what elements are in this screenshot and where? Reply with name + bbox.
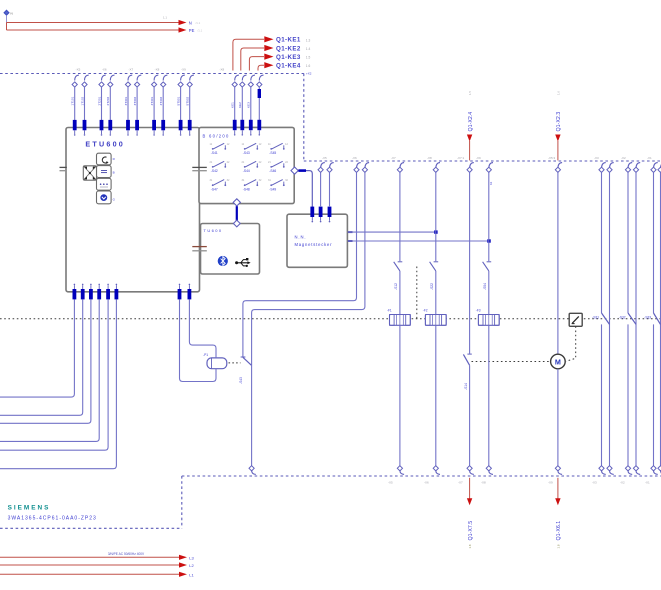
micro switch -S44: [242, 161, 262, 173]
micro switch -S47: [210, 179, 230, 191]
svg-text:Q1-KE4: Q1-KE4: [276, 63, 301, 70]
connector label bottom -X1: [645, 481, 650, 485]
mechanical link dashed to -S43: [229, 362, 241, 364]
wire ETU600 pin x108.1 to left edge: [0, 299, 108, 450]
label MLFB code: [8, 515, 97, 521]
svg-text:-S41: -S41: [211, 151, 218, 155]
cubicle boundary dashed step bottom vertical: [181, 476, 183, 528]
wire ETU600 pin x82.7 to left edge: [0, 299, 83, 415]
micro switch -S48: [242, 179, 262, 191]
wire Q1-KE3 with arrow: [249, 54, 310, 71]
wire Q1-KE4 with arrow: [258, 62, 310, 70]
svg-text:-S04: -S04: [483, 283, 487, 290]
terminal pin ETU600 bottom x179.5: [178, 284, 182, 300]
svg-text:-X2: -X2: [620, 481, 625, 485]
terminal ticks ETU600-TU600 link: [192, 247, 207, 251]
cubicle boundary dashed line step vertical: [303, 74, 305, 162]
terminal pin ETU600 top x110.3: [108, 120, 112, 136]
svg-text:1.1: 1.1: [163, 16, 167, 20]
secondary disconnect wire 3T302: [133, 75, 141, 120]
svg-text:5T501: 5T501: [176, 96, 180, 105]
wire coil F3 down: [488, 325, 490, 465]
connector label top -X5: [322, 156, 327, 160]
svg-text:-X8: -X8: [220, 68, 225, 72]
cubicle boundary dashed line bottom-left: [0, 527, 182, 529]
wire -S04 to coil F3: [488, 271, 490, 315]
terminal ticks ETU600 left edge: [60, 167, 67, 170]
terminal pin ETU600 bottom x108.1: [106, 284, 110, 300]
svg-text:Q1-X2.4: Q1-X2.4: [468, 112, 474, 132]
release box: [569, 313, 582, 326]
secondary disconnect wire motor feed: [467, 163, 474, 354]
svg-text:-X8: -X8: [481, 481, 486, 485]
connector label -X9: [181, 68, 186, 72]
svg-text:-X8: -X8: [427, 156, 432, 160]
wire ETU600 pin to -P1 top: [189, 299, 216, 358]
terminal pin ETU600 top x74.7: [73, 120, 77, 136]
usb symbol: [235, 258, 251, 267]
terminal pin ETU600 top x189.7: [188, 120, 192, 136]
secondary disconnect wire motor: [555, 163, 562, 355]
svg-text:Q1-KE2: Q1-KE2: [276, 45, 301, 52]
svg-text:-P1: -P1: [203, 353, 208, 357]
svg-text:-S42: -S42: [211, 169, 218, 173]
cubicle boundary dashed line bottom-right: [182, 475, 661, 477]
connector diamond B60/200 bottom: [233, 199, 240, 221]
secondary disconnect bottom x435.8: [433, 466, 440, 475]
wire from B60/200 to magnet pin 1: [311, 208, 313, 211]
svg-text:-S22: -S22: [430, 283, 434, 290]
arrow from Q1-X2.3: [555, 91, 562, 161]
svg-text:-S43: -S43: [243, 151, 250, 155]
switch -S12: [394, 262, 403, 271]
svg-text:-X2: -X2: [621, 156, 626, 160]
arrow N: [179, 20, 201, 26]
micro switch -S43: [242, 143, 262, 155]
magnet actuator N.N. box: [287, 214, 347, 267]
wire L3: [0, 555, 195, 561]
arrow from Q1-X2.4: [467, 91, 474, 161]
secondary disconnect wire 4T401: [150, 75, 158, 120]
svg-text:3T302: 3T302: [133, 96, 137, 105]
cubicle boundary dashed line top-left: [0, 73, 304, 75]
svg-text:1.5: 1.5: [306, 56, 311, 60]
secondary disconnect wire KE1: [231, 75, 239, 120]
mechanical linkage dashed line horizontal: [0, 318, 661, 320]
connector label top -X7:1: [457, 156, 465, 160]
micro switch -S45: [268, 143, 288, 155]
svg-text:-X1: -X1: [645, 481, 650, 485]
connector label bottom -X9: [548, 481, 553, 485]
wire ETU600 pin x116.4 to left edge: [0, 299, 116, 468]
terminal pin ETU600 top x128.0: [126, 120, 130, 136]
label -S43: [239, 377, 243, 384]
connector label -X7: [129, 68, 134, 72]
wire Q1-KE2 with arrow: [241, 45, 311, 71]
label feeder system: [108, 552, 145, 556]
svg-text:-X5: -X5: [76, 68, 81, 72]
svg-text:-X5:3: -X5:3: [548, 156, 556, 160]
svg-text:Q1-X2.3: Q1-X2.3: [556, 112, 562, 132]
secondary disconnect bottom x557.9: [555, 466, 562, 475]
svg-text:-S12: -S12: [394, 283, 398, 290]
svg-text:3WA1365-4CP61-0AA0-ZP23: 3WA1365-4CP61-0AA0-ZP23: [8, 515, 97, 521]
label -S12: [394, 283, 398, 290]
svg-text:N: N: [11, 12, 13, 16]
secondary disconnect wire 1T101: [71, 75, 79, 120]
micro switch -S49: [268, 179, 288, 191]
mechanical link dashed switch to motor: [472, 361, 550, 363]
svg-text:1T101: 1T101: [71, 96, 75, 105]
svg-text:-S47: -S47: [211, 187, 218, 191]
svg-text:1.8: 1.8: [468, 544, 472, 548]
secondary disconnect bottom x653.5: [651, 466, 658, 475]
secondary disconnect wire 5T502: [186, 75, 194, 120]
connector diamond TU600 top: [233, 220, 240, 227]
secondary disconnect wire pair inner: [252, 163, 370, 466]
coil -F3: [476, 309, 499, 326]
switch -S22: [430, 262, 439, 271]
svg-text:L2: L2: [189, 563, 194, 568]
svg-text:3T301: 3T301: [124, 96, 128, 105]
svg-text:-S45: -S45: [269, 151, 276, 155]
arrow to Q1-X7.5: [467, 478, 474, 549]
arrow to Q1-X6.1: [555, 478, 562, 549]
terminal pin B60/200 top x242.3: [240, 120, 244, 136]
connector label bottom -X8: [481, 481, 486, 485]
label -X8 connector gray: [220, 68, 225, 72]
test unit TU600 box: [201, 224, 260, 275]
terminal pin ETU600 bottom x90.9: [89, 284, 93, 300]
svg-text:2T201: 2T201: [97, 96, 101, 105]
secondary disconnect wire -S22: [433, 163, 440, 262]
limit switch pair -S32: [619, 163, 640, 466]
svg-text:-S48: -S48: [243, 187, 250, 191]
svg-text:SIEMENS: SIEMENS: [8, 505, 51, 512]
svg-text:5T502: 5T502: [186, 96, 190, 105]
wire ETU600 pin x74.4 to left edge: [0, 299, 74, 397]
wire ETU600 pin x99.2 to left edge: [0, 299, 99, 441]
svg-text:-X7: -X7: [129, 68, 134, 72]
secondary disconnect wire 4T402: [159, 75, 167, 120]
secondary disconnect bottom x609.5: [607, 466, 614, 475]
secondary disconnect wire 5T501: [176, 75, 184, 120]
svg-text:-X9: -X9: [476, 156, 481, 160]
svg-text:-S44: -S44: [243, 169, 250, 173]
svg-text:-X6: -X6: [102, 68, 107, 72]
wire L2: [0, 562, 195, 568]
connector label -X5: [76, 68, 81, 72]
svg-text:-S43: -S43: [239, 377, 243, 384]
svg-text:Q1-X6.1: Q1-X6.1: [556, 521, 562, 541]
connector label top -X9: [476, 156, 481, 160]
terminal pin B60/200 top x234.7: [233, 120, 237, 136]
terminal pin B60/200 top x259.3: [257, 120, 261, 136]
wire motor down: [557, 369, 559, 466]
terminal pin ETU600 top x154.1: [152, 120, 156, 136]
wire -S22 to coil F2: [435, 271, 437, 315]
label ETU600: [85, 139, 125, 148]
label B 60/200: [203, 134, 230, 139]
bluetooth symbol: [218, 256, 228, 266]
label -S22: [430, 283, 434, 290]
secondary disconnect bottom x660.5: [658, 466, 661, 475]
svg-text:Q1-X7.5: Q1-X7.5: [468, 521, 474, 541]
connector label top -X3: [594, 156, 599, 160]
secondary disconnect bottom x488.8: [486, 466, 493, 475]
terminal pin magnet box x329.5: [328, 207, 332, 223]
wire ETU600 pin x90.9 to left edge: [0, 299, 91, 423]
svg-text:KE1: KE1: [231, 102, 235, 108]
svg-text:-S14: -S14: [464, 383, 468, 390]
svg-text:-X6: -X6: [424, 481, 429, 485]
svg-text:/1.1: /1.1: [196, 21, 201, 25]
wire Q1-KE1 with arrow: [233, 36, 311, 70]
svg-text:1.8: 1.8: [556, 544, 560, 548]
label N.N.: [295, 234, 307, 239]
label -S14: [464, 383, 468, 390]
svg-text:1.4: 1.4: [306, 47, 311, 51]
svg-text:1.3: 1.3: [306, 38, 311, 42]
svg-text:L3: L3: [189, 555, 194, 560]
connector label -X6: [102, 68, 107, 72]
terminal pin ETU600 top x163.2: [161, 120, 165, 136]
secondary disconnect wire KE3: [247, 75, 255, 120]
mechanical linkage dashed vertical to coil F1: [416, 267, 418, 319]
svg-text:-S46: -S46: [269, 169, 276, 173]
wire PE horizontal: [7, 29, 179, 31]
contact block B60/200 box: [199, 127, 294, 203]
svg-text:-X8: -X8: [155, 68, 160, 72]
wire coil F1 down: [399, 325, 401, 465]
keypad and display controls of ETU600: [83, 153, 115, 204]
connector label bottom -X5: [388, 481, 393, 485]
wire ETU600 pin to -P1 bottom: [180, 299, 217, 381]
svg-text:3/N/PE AC 50/60Hz 400V: 3/N/PE AC 50/60Hz 400V: [108, 552, 145, 556]
svg-text:1.6: 1.6: [306, 64, 311, 68]
svg-text:-F1: -F1: [387, 309, 392, 313]
svg-text:PE: PE: [189, 28, 195, 33]
svg-text:-F3: -F3: [476, 309, 481, 313]
wire switch -S14 down: [469, 365, 471, 465]
svg-text:-X7: -X7: [458, 481, 463, 485]
secondary disconnect bottom x636.0: [633, 466, 640, 475]
svg-text:+X2: +X2: [306, 72, 312, 76]
micro switch -S42: [210, 161, 230, 173]
terminal pin ETU600 bottom x99.2: [97, 284, 101, 300]
secondary disconnect wire -S04: [486, 163, 493, 262]
svg-text:KE3: KE3: [247, 102, 251, 108]
connector label top -X6: [352, 156, 357, 160]
terminal ticks ETU600-B60/200 link: [192, 167, 207, 170]
secondary disconnect wire KE2: [238, 75, 246, 120]
terminal pin ETU600 top x84.5: [83, 120, 87, 136]
connector label top -X2: [621, 156, 626, 160]
svg-text:B 60/200: B 60/200: [203, 134, 230, 139]
secondary disconnect wire 2T202: [106, 75, 114, 120]
secondary disconnect wire KE4: [257, 75, 264, 120]
svg-text:-X7: -X7: [391, 156, 396, 160]
svg-text:B: B: [113, 171, 115, 175]
secondary disconnect wire magnet pin2: [318, 163, 325, 207]
wire coil F2 down: [435, 325, 437, 465]
svg-text:-X3: -X3: [592, 481, 597, 485]
terminal pin ETU600 top x180.6: [179, 120, 183, 136]
svg-text:/1.1: /1.1: [198, 29, 203, 33]
micro switch -S41: [210, 143, 230, 155]
svg-text:-X5: -X5: [322, 156, 327, 160]
svg-text:-S31: -S31: [592, 316, 599, 320]
svg-text:Q1-KE1: Q1-KE1: [276, 37, 301, 44]
terminal pin ETU600 bottom x74.4: [73, 284, 77, 300]
terminal pin magnet box x320.6: [319, 207, 323, 223]
secondary disconnect bottom x251.6: [249, 466, 256, 475]
svg-text:-S49: -S49: [269, 187, 276, 191]
label SIEMENS: [8, 505, 51, 512]
connector diamond B60/200 right: [291, 167, 312, 208]
wire magnet output 2: [348, 239, 491, 242]
coil -F2: [423, 309, 446, 326]
wire N horizontal: [7, 23, 179, 31]
secondary disconnect wire -S12: [397, 163, 404, 262]
node N source symbol: [4, 10, 13, 22]
svg-text:KE2: KE2: [238, 102, 242, 108]
svg-text:-X1: -X1: [647, 156, 652, 160]
terminal pin ETU600 bottom x116.4: [115, 284, 119, 300]
secondary disconnect wire 2T201: [97, 75, 105, 120]
connector label top -X1: [647, 156, 652, 160]
arrow PE: [179, 27, 203, 33]
wire magnet output 1: [348, 230, 438, 233]
connector label bottom -X7: [458, 481, 463, 485]
svg-text:Q1-KE3: Q1-KE3: [276, 54, 301, 61]
svg-text:-S32: -S32: [619, 316, 626, 320]
svg-text:-S33: -S33: [644, 316, 651, 320]
secondary disconnect bottom x399.9: [397, 466, 404, 475]
label wire number top-left: [163, 16, 167, 20]
micro switch -S46: [268, 161, 288, 173]
terminal pin B60/200 top x250.8: [249, 120, 253, 136]
svg-text:-F2: -F2: [423, 309, 428, 313]
terminal pin ETU600 top x137.1: [135, 120, 139, 136]
svg-text:TU600: TU600: [204, 228, 223, 233]
secondary disconnect wire 3T301: [124, 75, 132, 120]
wire L1: [0, 572, 195, 578]
svg-text:M: M: [555, 358, 561, 367]
limit switch pair -S33: [644, 163, 661, 466]
svg-text:4T401: 4T401: [150, 96, 154, 105]
terminal pin magnet box x312.3: [310, 207, 314, 223]
svg-text:Magnetstecker: Magnetstecker: [295, 242, 333, 247]
mechanical link dashed release to motor: [566, 326, 576, 361]
connector label bottom -X6: [424, 481, 429, 485]
secondary disconnect wire magnet pin3: [327, 163, 334, 207]
connector label -X8: [155, 68, 160, 72]
secondary disconnect wire 1T102: [80, 75, 88, 120]
cubicle boundary dashed line top-right: [304, 160, 661, 162]
trip unit ETU600 box: [66, 128, 200, 292]
svg-text:-X5: -X5: [388, 481, 393, 485]
svg-text:ETU600: ETU600: [85, 139, 125, 148]
secondary disconnect bottom x469.6: [467, 466, 474, 475]
svg-text:1.6: 1.6: [556, 91, 560, 95]
connector label top -X5:3: [548, 156, 556, 160]
terminal pin ETU600 bottom x189.4: [188, 284, 192, 300]
connector label bottom -X2: [620, 481, 625, 485]
label TU600: [204, 228, 223, 233]
tiny label +X2: [306, 72, 312, 76]
secondary disconnect bottom x628.0: [625, 466, 632, 475]
svg-text:-X7:1: -X7:1: [457, 156, 465, 160]
wire -S12 to coil F1: [399, 271, 401, 315]
terminal pin ETU600 bottom x82.7: [81, 284, 85, 300]
secondary disconnect bottom x601.5: [599, 466, 606, 475]
switch -S04: [483, 262, 492, 271]
svg-text:N: N: [189, 21, 192, 26]
connector label bottom -X3: [592, 481, 597, 485]
limit switch pair -S31: [592, 163, 613, 466]
motor M1 storage drive: [551, 354, 566, 369]
connector label top -X8: [427, 156, 432, 160]
svg-text:b1: b1: [489, 181, 493, 185]
component -P1 plug: [203, 353, 227, 369]
svg-text:-X9: -X9: [548, 481, 553, 485]
svg-text:4T402: 4T402: [159, 96, 163, 105]
svg-text:1T102: 1T102: [80, 96, 84, 105]
svg-text:-X6: -X6: [352, 156, 357, 160]
switch -S14 blade: [463, 354, 471, 365]
svg-text:-X3: -X3: [594, 156, 599, 160]
label -S04: [483, 283, 487, 290]
connector label top -X7: [391, 156, 396, 160]
coil -F1: [387, 309, 410, 326]
svg-text:-X9: -X9: [181, 68, 186, 72]
svg-text:L1: L1: [189, 572, 194, 577]
terminal pin ETU600 top x101.5: [100, 120, 104, 136]
secondary disconnect wire pair outer: [243, 163, 361, 358]
svg-text:N.N.: N.N.: [295, 234, 307, 239]
switch -S43 blade: [241, 357, 252, 365]
svg-text:1.5: 1.5: [468, 91, 472, 95]
svg-text:2T202: 2T202: [106, 96, 110, 105]
label Magnetstecker: [295, 242, 333, 247]
